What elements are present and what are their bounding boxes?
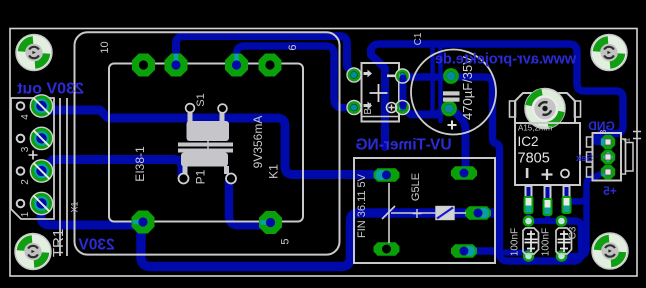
svg-text:EI38-1: EI38-1 [133, 146, 147, 182]
mounting hole bottom-right [592, 233, 628, 269]
svg-text:P1: P1 [194, 169, 208, 184]
svg-text:10: 10 [99, 41, 111, 53]
transformer core bars [178, 143, 233, 147]
svg-text:C3: C3 [568, 226, 579, 239]
B1 pad rings white [347, 68, 361, 82]
IC2 legs [524, 185, 572, 220]
bridge rectifier B1 [362, 63, 400, 122]
core center line [207, 138, 209, 156]
wire C3 bottom to +5 vertical [562, 195, 587, 256]
wire T1 230V from X1-4 to relay LT [41, 110, 380, 175]
svg-text:6: 6 [287, 44, 299, 50]
svg-text:9V356mA: 9V356mA [251, 116, 265, 169]
svg-text:7805: 7805 [518, 151, 550, 167]
svg-text:4: 4 [20, 114, 31, 120]
transformer pad 1 [132, 211, 155, 234]
mounting hole bottom-left [15, 234, 51, 270]
connector SV1 outline [593, 133, 622, 181]
terminal X1 extra line a [59, 98, 61, 256]
svg-text:Sek: Sek [575, 153, 593, 164]
pin2 highlighted cross [603, 152, 613, 162]
B1 pad bottom-left [349, 103, 359, 113]
mounting hole top-left [16, 35, 52, 71]
svg-text:S1: S1 [195, 93, 207, 106]
capacitor C2 outline [523, 228, 539, 254]
pin1 trace overlap [602, 170, 607, 177]
svg-text:100nF: 100nF [510, 228, 521, 256]
terminal X1 screw pad 2 [31, 160, 53, 182]
IC2 middle leg pad [543, 198, 553, 216]
svg-text:+5: +5 [603, 184, 617, 198]
B1 polarity marks [364, 70, 373, 78]
transformer pad 7 [225, 54, 248, 77]
wire B1 BR to C1 bottom pad [403, 108, 444, 115]
B1 pad bottom-right [398, 103, 408, 113]
wire relay RB to rail [465, 247, 499, 255]
C1 plate bars [443, 91, 460, 95]
svg-text:230V out: 230V out [16, 81, 83, 98]
connector pad holes [605, 139, 611, 145]
wire P1 right pin to transformer pad5 [229, 182, 266, 225]
svg-text:K1: K1 [267, 164, 281, 179]
capacitor C3 pads [556, 215, 568, 227]
C3 plus and plates [558, 231, 571, 253]
X1 wire hole 1 [17, 200, 25, 208]
X1 wire hole 2 [17, 167, 25, 175]
wire T4 X1-2 to P1 left pin [42, 160, 183, 178]
wire IC2 left leg to C2 top [526, 205, 532, 220]
IC2 tab hole [525, 89, 565, 129]
svg-text:B1: B1 [363, 102, 374, 115]
wire thin vertical b through C1 [438, 45, 443, 121]
transformer symbol S1 winding [186, 104, 229, 141]
K1 origin cross [413, 209, 422, 218]
C1 plus mark [448, 121, 457, 130]
transformer pad 6 [259, 54, 282, 77]
wire T6 transformer pad1 under board to relay RM [141, 213, 498, 267]
svg-text:1: 1 [623, 137, 632, 142]
svg-text:UV-Timer-NG: UV-Timer-NG [355, 137, 451, 154]
connector pad pin1 [601, 165, 615, 179]
relay pads [374, 168, 400, 181]
svg-text:2: 2 [20, 179, 31, 185]
connector pads [601, 135, 615, 149]
relay K1 outline [354, 158, 495, 263]
transformer TR1 outer outline [75, 32, 340, 254]
svg-text:FIN 36.11 5V: FIN 36.11 5V [356, 173, 368, 238]
transformer pad 5 [259, 211, 282, 234]
X1 origin cross [29, 151, 38, 160]
IC2 IO marks [526, 168, 529, 178]
C2 plus and plates [525, 231, 538, 253]
connector pad pin2 [601, 150, 615, 164]
terminal X1 extra line b [66, 98, 68, 256]
wire H1 GND line: B1 middle vertical to connector pin3 [371, 44, 623, 142]
wire C1 bottom pad east to H2 vertical [453, 110, 466, 176]
svg-text:1: 1 [20, 211, 31, 217]
X1 wire hole 3 [17, 135, 25, 143]
wire IC2 right leg to connector pin1 +5 [567, 173, 604, 203]
IC2 right leg pad [562, 196, 572, 214]
svg-text:5: 5 [280, 238, 292, 244]
capacitor C1 outline [411, 50, 496, 135]
svg-text:A15,2mm: A15,2mm [518, 124, 553, 133]
terminal X1 screw pad 3 [31, 127, 53, 149]
terminal X1 screw pad 1 [31, 193, 53, 215]
B1 pads [349, 70, 359, 80]
wire T3 transformer pin7 to B1 BL [237, 46, 353, 108]
wire H2 raw DC: B1 TR through C1+ down to relay RT [403, 77, 582, 261]
relay symbol [388, 183, 390, 243]
wire IC2 middle leg GND to cap tops [545, 207, 550, 219]
wire T2 transformer pin9 to B1 TL [176, 36, 353, 74]
terminal X1 screw pads [31, 95, 53, 117]
IC2 7805 TO220 tab [515, 93, 575, 123]
mounting hole top-right [591, 35, 627, 71]
capacitor C3 outline [556, 228, 572, 254]
svg-text:X1: X1 [70, 201, 80, 212]
wire H1 branch through B1 middle [371, 49, 385, 147]
transformer pad 9 [165, 54, 188, 77]
X1 wire hole 4 [17, 102, 25, 110]
svg-text:3: 3 [599, 129, 608, 134]
svg-text:TR1: TR1 [50, 229, 67, 257]
terminal X1 box [11, 98, 54, 219]
transformer TR1 core outline [109, 64, 303, 222]
wire thin vertical a through C1 [430, 45, 435, 114]
wire T5 X1-1 to transformer pad 1 [41, 204, 142, 225]
B1 pad top-right [398, 71, 408, 81]
capacitor C2 pads [523, 215, 535, 227]
IC2 body [515, 123, 580, 185]
svg-text:IC2: IC2 [518, 134, 539, 149]
svg-text:100nF: 100nF [541, 228, 552, 256]
svg-text:G5LE: G5LE [410, 173, 422, 201]
svg-text:www.avr-projekte.de: www.avr-projekte.de [435, 52, 577, 68]
pin3 trace overlap [601, 139, 608, 146]
svg-text:C1: C1 [413, 32, 424, 45]
wire cap top connection bar [529, 218, 562, 224]
transformer symbol P1 winding [179, 153, 237, 184]
wire C2 bottom to rail [505, 250, 529, 256]
C1 pads [445, 70, 457, 82]
svg-text:230V: 230V [78, 237, 115, 254]
transformer pad 10 [132, 54, 155, 77]
svg-text:3: 3 [20, 146, 31, 152]
wire B1 TR to BR vertical [400, 78, 407, 106]
